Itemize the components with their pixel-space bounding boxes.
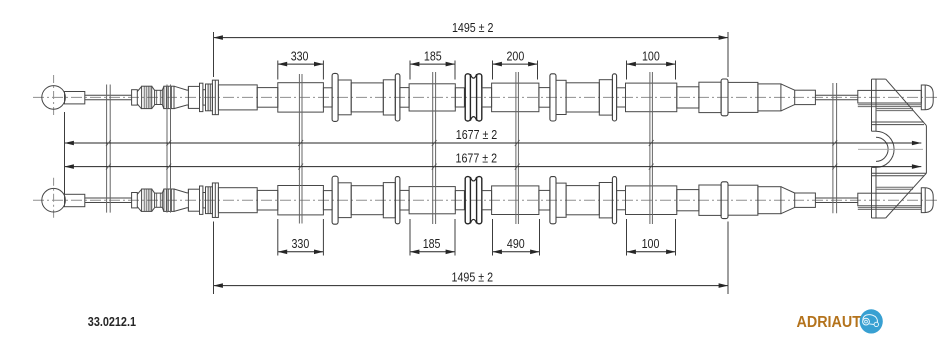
svg-text:200: 200 [507, 49, 525, 63]
svg-text:1677 ± 2: 1677 ± 2 [456, 151, 498, 165]
svg-text:185: 185 [423, 237, 441, 251]
svg-text:490: 490 [507, 237, 525, 251]
svg-text:1495 ± 2: 1495 ± 2 [452, 270, 494, 284]
svg-text:1495 ± 2: 1495 ± 2 [452, 21, 494, 35]
svg-text:100: 100 [642, 49, 660, 63]
svg-text:330: 330 [291, 49, 309, 63]
svg-text:ADRIAUT: ADRIAUT [797, 314, 862, 331]
svg-text:185: 185 [424, 49, 442, 63]
svg-text:330: 330 [292, 237, 310, 251]
svg-text:33.0212.1: 33.0212.1 [88, 314, 136, 329]
svg-text:100: 100 [642, 237, 660, 251]
svg-text:1677 ± 2: 1677 ± 2 [456, 128, 498, 142]
